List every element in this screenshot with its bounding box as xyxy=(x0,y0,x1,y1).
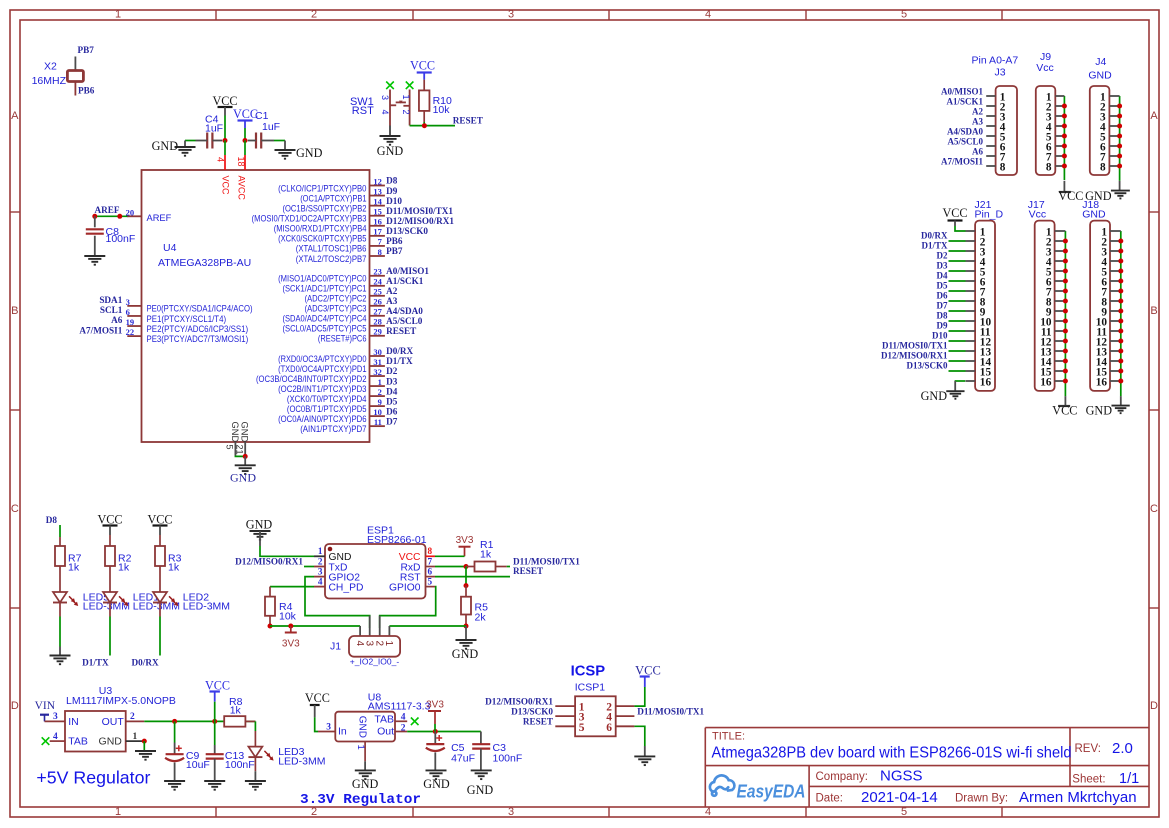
svg-text:VIN: VIN xyxy=(35,700,56,712)
wire J21 pin16 to ground xyxy=(955,380,966,382)
J9 pin 6 xyxy=(1055,145,1064,147)
svg-text:A3: A3 xyxy=(972,117,983,127)
svg-text:D1/TX: D1/TX xyxy=(386,356,413,366)
svg-text:A: A xyxy=(11,110,19,122)
junction at C9 xyxy=(172,719,177,724)
svg-text:1: 1 xyxy=(133,732,138,742)
header J3 body xyxy=(996,86,1017,175)
svg-text:GND: GND xyxy=(99,736,123,748)
svg-text:100nF: 100nF xyxy=(493,753,523,765)
LED LED2 symbol xyxy=(153,592,167,603)
svg-text:REV:: REV: xyxy=(1075,743,1101,755)
svg-text:Drawn By:: Drawn By: xyxy=(955,793,1008,805)
wire VCC to U8 In xyxy=(315,717,318,731)
svg-text:D6: D6 xyxy=(937,291,948,301)
J18 pin 3 xyxy=(1110,250,1121,252)
svg-text:PB6: PB6 xyxy=(386,236,403,246)
U4 pin 25 ((ADC2/PTCY)PC2) xyxy=(370,295,385,297)
svg-text:D8: D8 xyxy=(937,311,948,321)
svg-text:VCC: VCC xyxy=(942,206,967,220)
resistor R5 body xyxy=(461,597,471,615)
svg-text:2: 2 xyxy=(374,641,385,647)
svg-text:D2: D2 xyxy=(386,366,398,376)
ground symbol below U8 xyxy=(355,770,376,779)
wire LED2 to net D0/RX xyxy=(159,603,161,617)
svg-text:D9: D9 xyxy=(937,321,948,331)
power flag VCC below J9 xyxy=(1063,181,1065,192)
svg-text:A6: A6 xyxy=(111,315,123,325)
svg-text:A4/SDA0: A4/SDA0 xyxy=(947,127,984,137)
svg-text:D7: D7 xyxy=(937,301,948,311)
svg-text:10uF: 10uF xyxy=(186,759,210,771)
svg-text:A7/MOSI1: A7/MOSI1 xyxy=(79,325,122,335)
svg-text:11: 11 xyxy=(374,417,382,427)
J18 pin 5 xyxy=(1110,270,1121,272)
frame column ticks bottom xyxy=(216,807,1002,817)
svg-text:8: 8 xyxy=(1046,161,1052,173)
svg-text:26: 26 xyxy=(373,297,382,307)
svg-text:GND: GND xyxy=(246,518,273,532)
svg-text:AVCC: AVCC xyxy=(236,176,246,201)
wire R8 to LED3 xyxy=(254,721,256,731)
svg-text:GND: GND xyxy=(921,389,948,403)
svg-text:22: 22 xyxy=(126,327,135,337)
wire R5 to J1 pin 1 xyxy=(389,625,466,627)
svg-text:D10: D10 xyxy=(932,331,948,341)
wire ESP1 RST pin6 RESET net xyxy=(435,576,510,578)
J3 pin 7 xyxy=(986,155,995,157)
J4 pin 3 xyxy=(1109,115,1119,117)
J17 vcc bus wire xyxy=(1064,231,1066,396)
svg-text:(AIN1/PTCXY)PD7: (AIN1/PTCXY)PD7 xyxy=(300,424,366,434)
J17 pin 9 xyxy=(1055,310,1066,312)
no-connect X on SW1 pin 3 xyxy=(386,82,394,90)
J17 pin 13 xyxy=(1055,350,1066,352)
svg-text:5: 5 xyxy=(225,445,235,450)
U4 pin 18 AVCC top pin xyxy=(244,155,246,170)
ICSP1 pin 6 right xyxy=(616,725,635,727)
regulator U3 pin 1 GND xyxy=(126,740,145,742)
svg-text:J4: J4 xyxy=(1095,56,1106,68)
svg-text:24: 24 xyxy=(373,277,382,287)
svg-text:1k: 1k xyxy=(68,562,80,574)
svg-text:NGSS: NGSS xyxy=(880,768,923,785)
J17 pin 4 xyxy=(1055,260,1066,262)
header J21 body xyxy=(975,221,995,391)
junction at 3V3 stub xyxy=(288,624,293,629)
capacitor C5 top lead xyxy=(434,732,436,745)
U4 pin 6 (PE1(PTCXY/SCL1/T4)) xyxy=(127,315,141,317)
U4 pin 13 ((OC1A/PTCXY)PB1) xyxy=(370,195,385,197)
J21 pin 11 xyxy=(966,330,976,332)
frame row ticks right xyxy=(1149,212,1159,608)
svg-text:PE1(PTCXY/SCL1/T4): PE1(PTCXY/SCL1/T4) xyxy=(147,314,227,324)
J18 pin 11 xyxy=(1110,330,1121,332)
svg-text:1: 1 xyxy=(378,377,382,387)
header J4 body xyxy=(1090,86,1110,175)
regulator U3 body LM1117 xyxy=(65,711,126,752)
svg-text:A5/SCL0: A5/SCL0 xyxy=(386,316,423,326)
capacitor C1 plates xyxy=(255,133,257,149)
svg-text:PB7: PB7 xyxy=(386,246,403,256)
svg-text:30: 30 xyxy=(373,347,382,357)
svg-text:A0/MISO1: A0/MISO1 xyxy=(941,87,984,97)
svg-text:D5: D5 xyxy=(937,281,948,291)
svg-text:GND: GND xyxy=(240,422,250,443)
svg-text:RESET: RESET xyxy=(523,717,553,727)
svg-text:Vcc: Vcc xyxy=(1036,62,1054,74)
svg-text:Date:: Date: xyxy=(816,793,844,805)
ground symbol below SW1 xyxy=(389,126,391,137)
svg-text:16: 16 xyxy=(1040,376,1052,388)
wire R2 to LED1 xyxy=(109,566,111,592)
ground symbol below C9 xyxy=(164,781,185,790)
svg-text:17: 17 xyxy=(373,227,382,237)
J17 pin 10 xyxy=(1055,320,1066,322)
svg-text:GND: GND xyxy=(152,139,179,153)
svg-text:12: 12 xyxy=(373,176,382,186)
wire ESP1 VCC pin8 to 3V3 xyxy=(435,555,465,557)
J21 pin 4 xyxy=(966,260,976,262)
LED LED1 symbol xyxy=(103,592,117,603)
svg-text:16: 16 xyxy=(980,376,992,388)
svg-text:1: 1 xyxy=(355,745,366,750)
capacitor C9 bottom lead xyxy=(174,763,176,782)
resistor R10 body xyxy=(419,90,430,111)
svg-text:25: 25 xyxy=(373,287,382,297)
power flag 3V3 below R4 xyxy=(290,626,292,633)
frame row letters left xyxy=(11,110,19,712)
J17 pin 16 xyxy=(1055,380,1066,382)
svg-text:GND: GND xyxy=(352,777,379,791)
U4 pin 8 ((XTAL2/TOSC2)PB7) xyxy=(370,255,385,257)
ground symbol below LED3 xyxy=(245,781,266,790)
svg-text:PE2(PTCY/ADC6/ICP3/SS1): PE2(PTCY/ADC6/ICP3/SS1) xyxy=(147,324,249,334)
J21 pin 15 xyxy=(966,370,976,372)
svg-text:RESET: RESET xyxy=(453,115,483,125)
svg-text:+5V Regulator: +5V Regulator xyxy=(36,768,150,788)
svg-text:(TXD0/OC4A/PTCXY)PD1: (TXD0/OC4A/PTCXY)PD1 xyxy=(278,364,366,374)
svg-text:3: 3 xyxy=(508,806,514,818)
junction below R4 xyxy=(268,624,273,629)
J9 pin 5 xyxy=(1055,135,1064,137)
EasyEDA logo cloud xyxy=(710,775,734,795)
svg-text:(RESET#)PC6: (RESET#)PC6 xyxy=(318,334,367,344)
U4 pin 16 ((MISO0/RXD1/PTCXY)PB4) xyxy=(370,225,385,227)
J9 pin 8 xyxy=(1055,165,1064,167)
U4 pin 1 ((OC2B/INT1/PTCXY)PD3) xyxy=(370,385,385,387)
svg-text:8: 8 xyxy=(378,247,382,257)
svg-text:(MISO0/RXD1/PTCXY)PB4: (MISO0/RXD1/PTCXY)PB4 xyxy=(274,224,367,234)
regulator U3 pin 2 OUT xyxy=(126,720,145,722)
svg-text:D11/MOSI0/TX1: D11/MOSI0/TX1 xyxy=(386,206,453,216)
header J9 body xyxy=(1036,86,1056,175)
regulator U8 pin 3 In xyxy=(318,731,335,733)
svg-text:D: D xyxy=(11,700,19,712)
svg-text:(MOSI0/TXD1/OC2A/PTCXY)PB3: (MOSI0/TXD1/OC2A/PTCXY)PB3 xyxy=(252,214,367,224)
ICSP1 pin 2 right xyxy=(616,705,635,707)
svg-text:D1/TX: D1/TX xyxy=(921,241,948,251)
svg-text:8: 8 xyxy=(1100,161,1106,173)
wire joining U4 ground pins xyxy=(235,455,245,458)
capacitor C8 plates xyxy=(86,228,104,230)
U4 pin 27 ((SDA0/ADC4/PTCY)PC4) xyxy=(370,315,385,317)
capacitor C8 bottom lead xyxy=(94,236,96,256)
wire AREF to U4 pin 20 xyxy=(95,215,128,217)
svg-text:D0/RX: D0/RX xyxy=(386,346,413,356)
J21 pin 1 xyxy=(966,230,976,232)
svg-text:2: 2 xyxy=(318,556,323,566)
svg-text:RESET: RESET xyxy=(386,326,416,336)
ESP1 pin 8 VCC xyxy=(426,555,436,557)
svg-text:D9: D9 xyxy=(386,186,398,196)
J4 pin 1 xyxy=(1109,95,1119,97)
svg-text:TAB: TAB xyxy=(374,713,394,725)
ground symbol below J4 xyxy=(1119,181,1121,191)
wire C4 left plate to GND elbow xyxy=(196,140,208,142)
J21 pin 10 xyxy=(966,320,976,322)
wire VCC to J21 pin1 xyxy=(955,226,966,231)
svg-text:ICSP1: ICSP1 xyxy=(575,682,606,694)
svg-text:LM1117IMPX-5.0NOPB: LM1117IMPX-5.0NOPB xyxy=(66,695,176,707)
svg-text:AREF: AREF xyxy=(95,205,120,215)
svg-text:PB6: PB6 xyxy=(78,86,95,96)
U4 pin 23 ((MISO1/ADC0/PTCY)PC0) xyxy=(370,275,385,277)
connector J1 body xyxy=(349,636,400,657)
capacitor C8 top lead xyxy=(94,216,96,227)
U4 pin 19 (PE2(PTCY/ADC6/ICP3/SS1)) xyxy=(127,325,141,327)
svg-text:In: In xyxy=(338,726,347,738)
svg-text:3: 3 xyxy=(53,712,58,722)
U4 pin 2 ((XCK0/T0/PTCXY)PD4) xyxy=(370,395,385,397)
svg-text:RESET: RESET xyxy=(513,566,543,576)
svg-text:D7: D7 xyxy=(386,416,398,426)
J4 pin 7 xyxy=(1109,155,1119,157)
ESP1 pin 1 GND xyxy=(314,555,325,557)
wire junction down to U4 pin 18 xyxy=(244,141,246,156)
svg-text:3.3V Regulator: 3.3V Regulator xyxy=(300,792,421,808)
svg-text:3: 3 xyxy=(326,723,331,733)
resistor R8 body xyxy=(224,716,245,727)
svg-text:16MHZ: 16MHZ xyxy=(32,75,67,87)
junction at C1 node xyxy=(243,138,248,143)
J21 pin 6 xyxy=(966,280,976,282)
svg-text:A4/SDA0: A4/SDA0 xyxy=(386,306,423,316)
svg-text:21: 21 xyxy=(234,445,244,455)
svg-text:VCC: VCC xyxy=(1058,189,1083,203)
wire R3 to LED2 xyxy=(159,566,161,592)
resistor R7 body xyxy=(55,546,65,566)
ground symbol below ICSP xyxy=(634,756,655,765)
svg-text:(SDA0/ADC4/PTCY)PC4: (SDA0/ADC4/PTCY)PC4 xyxy=(283,314,367,324)
svg-text:16: 16 xyxy=(1096,376,1108,388)
svg-text:(XCK0/SCK0/PTCXY)PB5: (XCK0/SCK0/PTCXY)PB5 xyxy=(278,234,366,244)
svg-text:VCC: VCC xyxy=(221,176,231,196)
wire GND to ESP1 pin 1 xyxy=(260,546,314,556)
svg-text:3V3: 3V3 xyxy=(282,639,300,650)
svg-text:GND: GND xyxy=(230,471,256,485)
svg-text:4: 4 xyxy=(354,641,365,647)
resistor R8 right lead xyxy=(245,720,255,722)
wire ESP1 GPIO2 to J1 pin 3 xyxy=(305,577,370,628)
J18 pin 15 xyxy=(1110,370,1121,372)
svg-text:(XTAL2/TOSC2)PB7: (XTAL2/TOSC2)PB7 xyxy=(296,254,367,264)
svg-text:GND: GND xyxy=(377,144,404,158)
J3 pin 4 xyxy=(986,125,995,127)
svg-text:(OC0B/T1/PTCXY)PD5: (OC0B/T1/PTCXY)PD5 xyxy=(287,404,367,414)
frame column numbers top xyxy=(115,8,907,20)
svg-text:2: 2 xyxy=(130,712,135,722)
no-connect X on U8 TAB xyxy=(411,718,419,726)
svg-text:D5: D5 xyxy=(386,396,398,406)
J21 pin 13 xyxy=(966,350,976,352)
svg-text:EasyEDA: EasyEDA xyxy=(737,782,806,802)
svg-text:SDA1: SDA1 xyxy=(99,295,122,305)
svg-text:D13/SCK0: D13/SCK0 xyxy=(511,707,553,717)
J9 vcc bus wire xyxy=(1063,96,1065,180)
svg-text:2.0: 2.0 xyxy=(1112,740,1133,757)
header J18 body xyxy=(1090,221,1110,391)
svg-text:7: 7 xyxy=(428,556,433,566)
wire C4 right plate to junction xyxy=(212,140,222,142)
J9 pin 4 xyxy=(1055,125,1064,127)
J17 pin 3 xyxy=(1055,250,1066,252)
svg-text:9: 9 xyxy=(378,397,382,407)
wire ICSP pin2 to VCC xyxy=(634,687,644,706)
regulator U8 body AMS1117-3.3 xyxy=(335,712,395,742)
junction at C4 node xyxy=(223,138,228,143)
svg-text:20: 20 xyxy=(126,207,135,217)
ESP1 pin 4 CH_PD xyxy=(314,586,325,588)
svg-text:(XCK0/T0/PTCXY)PD4: (XCK0/T0/PTCXY)PD4 xyxy=(287,394,367,404)
svg-text:D0/RX: D0/RX xyxy=(132,658,159,668)
U4 pin 14 ((OC1B/SS0/PTCXY)PB2) xyxy=(370,205,385,207)
U4 pin 24 ((SCK1/ADC1/PTCY)PC1) xyxy=(370,285,385,287)
crystal X2 bottom pin xyxy=(74,82,76,96)
J18 pin 12 xyxy=(1110,340,1121,342)
resistor R1 left lead xyxy=(466,566,475,568)
J3 pin 1 xyxy=(986,95,995,97)
svg-text:D12/MISO0/RX1: D12/MISO0/RX1 xyxy=(485,697,553,707)
svg-text:1uF: 1uF xyxy=(205,123,223,135)
svg-text:B: B xyxy=(1150,305,1157,317)
svg-text:13: 13 xyxy=(373,186,382,196)
svg-text:4: 4 xyxy=(705,806,711,818)
capacitor C9 polarized plates xyxy=(166,753,184,755)
svg-text:2: 2 xyxy=(311,8,317,20)
ESP1 pin 3 GPIO2 xyxy=(314,576,325,578)
frame row ticks left xyxy=(10,212,20,608)
capacitor C4 plates xyxy=(206,133,208,149)
wire RESET net from SW1 pin2 xyxy=(410,125,455,127)
J18 pin 7 xyxy=(1110,290,1121,292)
svg-text:PE0(PTCXY/SDA1/ICP4/ACO): PE0(PTCXY/SDA1/ICP4/ACO) xyxy=(147,304,253,314)
U4 pin 17 ((XCK0/SCK0/PTCXY)PB5) xyxy=(370,235,385,237)
svg-text:4: 4 xyxy=(705,8,711,20)
svg-text:(CLKO/ICP1/PTCXY)PB0: (CLKO/ICP1/PTCXY)PB0 xyxy=(278,183,366,193)
svg-text:1: 1 xyxy=(401,95,411,100)
wire ICSP pin6 to ground xyxy=(634,726,644,746)
svg-text:1k: 1k xyxy=(230,704,242,716)
svg-text:2: 2 xyxy=(378,387,382,397)
U4 pin 15 ((MOSI0/TXD1/OC2A/PTCXY)PB3) xyxy=(370,215,385,217)
junction at AREF label xyxy=(92,214,97,219)
wire R7 to LED5 xyxy=(59,566,61,592)
svg-text:3: 3 xyxy=(380,95,390,100)
J18 pin 14 xyxy=(1110,360,1121,362)
svg-text:(OC2B/INT1/PTCXY)PD3: (OC2B/INT1/PTCXY)PD3 xyxy=(278,384,366,394)
svg-text:D6: D6 xyxy=(386,406,398,416)
svg-text:1uF: 1uF xyxy=(262,121,280,133)
resistor R5 top lead xyxy=(465,586,467,597)
svg-text:A: A xyxy=(1150,110,1158,122)
svg-text:GND: GND xyxy=(1088,70,1112,82)
J3 pin 5 xyxy=(986,135,995,137)
J18 pin 16 xyxy=(1110,380,1121,382)
module ESP1 body ESP8266-01 xyxy=(325,544,426,599)
op-amp U4 body ATMEGA328PB-AU xyxy=(142,170,370,442)
svg-text:GND: GND xyxy=(452,647,479,661)
svg-text:D12/MISO0/RX1: D12/MISO0/RX1 xyxy=(235,556,303,566)
ground symbol below LED5 xyxy=(50,656,71,665)
J9 pin 7 xyxy=(1055,155,1064,157)
svg-text:A3: A3 xyxy=(386,296,398,306)
svg-text:Out: Out xyxy=(377,726,394,738)
svg-text:D2: D2 xyxy=(937,251,948,261)
svg-text:GND: GND xyxy=(230,422,240,443)
svg-text:PE3(PTCY/ADC7/T3/MOSI1): PE3(PTCY/ADC7/T3/MOSI1) xyxy=(147,334,249,344)
svg-text:A7/MOSI1: A7/MOSI1 xyxy=(941,157,984,167)
svg-text:D8: D8 xyxy=(386,176,398,186)
svg-text:A6: A6 xyxy=(972,147,983,157)
regulator U8 pin 4 TAB xyxy=(395,720,407,722)
U4 pin 28 ((SCL0/ADC5/PTCY)PC5) xyxy=(370,325,385,327)
J21 pin 7 xyxy=(966,290,976,292)
svg-text:2: 2 xyxy=(401,723,406,733)
svg-text:(OC0A/AIN0/PTCXY)PD6: (OC0A/AIN0/PTCXY)PD6 xyxy=(278,414,366,424)
svg-text:1: 1 xyxy=(115,8,121,20)
ESP1 pin 6 RST xyxy=(426,576,436,578)
svg-text:1: 1 xyxy=(115,806,121,818)
title block outline xyxy=(705,728,1149,807)
resistor R10 bottom lead xyxy=(423,111,425,122)
J9 pin 2 xyxy=(1055,105,1064,107)
svg-text:10k: 10k xyxy=(433,104,451,116)
svg-text:D11/MOSI0/TX1: D11/MOSI0/TX1 xyxy=(882,341,948,351)
svg-text:D4: D4 xyxy=(937,271,948,281)
LED LED5 symbol xyxy=(53,592,67,603)
ESP1 pin 7 RxD xyxy=(426,566,436,568)
capacitor C13 plates xyxy=(206,753,224,755)
ICSP1 pin 3 left xyxy=(555,715,575,717)
regulator U8 pin 1 GND xyxy=(364,742,366,762)
svg-text:3: 3 xyxy=(126,297,130,307)
capacitor C13 bottom lead xyxy=(214,759,216,781)
svg-text:6: 6 xyxy=(126,307,130,317)
svg-text:Armen Mkrtchyan: Armen Mkrtchyan xyxy=(1019,789,1137,806)
J18 gnd bus wire xyxy=(1120,231,1122,396)
J21 pin 9 xyxy=(966,310,976,312)
J3 pin 3 xyxy=(986,115,995,117)
svg-text:C: C xyxy=(11,503,19,515)
frame column numbers bottom xyxy=(115,806,907,818)
ICSP1 pin 1 left xyxy=(555,705,575,707)
junction on RESET wire xyxy=(422,123,427,128)
svg-text:D3: D3 xyxy=(386,376,398,386)
wire C1 right plate to GND elbow xyxy=(261,140,274,142)
svg-text:J3: J3 xyxy=(994,67,1005,79)
connector J1 pin stubs xyxy=(360,616,389,636)
